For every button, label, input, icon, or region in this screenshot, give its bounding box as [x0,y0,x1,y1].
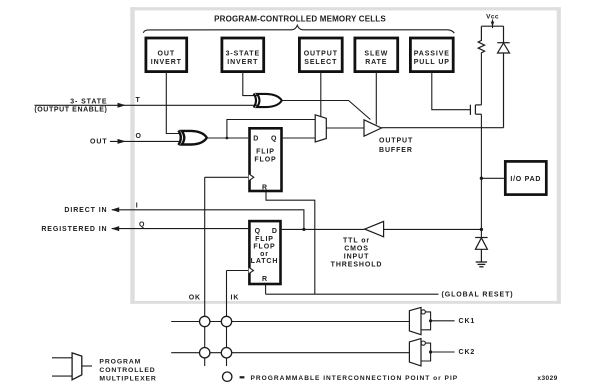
svg-text:BUFFER: BUFFER [379,147,413,154]
memory cell box 3-STATE INVERT [222,38,264,72]
I/O pad node vertical [480,128,482,238]
PIP IK/CK2 [221,348,231,358]
mux M1 (output select) [315,115,326,142]
wire U2 output to pad node [382,127,504,129]
svg-text:IK: IK [231,294,240,301]
svg-text:CONTROLLED: CONTROLLED [99,367,155,374]
svg-text:R: R [262,276,268,283]
junction D bypass [226,137,229,140]
svg-text:PASSIVE: PASSIVE [414,51,450,58]
svg-text:(OUTPUT ENABLE): (OUTPUT ENABLE) [34,107,107,114]
I/O PAD box [505,161,546,194]
svg-text:PROGRAM-CONTROLLED MEMORY CELL: PROGRAM-CONTROLLED MEMORY CELLS [214,14,386,23]
wire T (3-state input) [35,104,259,106]
wire I branch up [112,210,304,230]
svg-text:RATE: RATE [365,59,387,66]
svg-text:R: R [262,184,268,191]
wire G2 output to flip-flop D [207,137,249,139]
svg-text:CK1: CK1 [459,318,476,325]
svg-text:(GLOBAL RESET): (GLOBAL RESET) [442,292,514,299]
diode D2 (clamp to ground) [475,238,487,263]
U1 clock wedge [249,174,254,181]
svg-text:Q: Q [255,228,261,235]
svg-text:3-STATE: 3-STATE [226,51,260,58]
Vcc stub with arrow [492,20,494,29]
PIP IK/CK1 [221,316,231,326]
resistor R1 (pull-up) [478,26,484,54]
wire CK2 row [171,352,409,354]
svg-text:OK: OK [189,294,201,301]
svg-text:Vcc: Vcc [486,13,499,20]
svg-text:INVERT: INVERT [227,59,258,66]
svg-text:DIRECT IN: DIRECT IN [64,207,107,214]
brace over memory cell boxes [143,25,454,33]
svg-text:Q: Q [271,135,277,142]
wire Q1 source to pad node [480,114,482,128]
wire OK clock to U1 [205,176,248,178]
svg-text:MULTIPLEXER: MULTIPLEXER [99,375,156,382]
U4 clock wedge [249,267,254,273]
svg-text:CK2: CK2 [459,349,476,356]
svg-text:OUT: OUT [158,51,175,58]
diode D1 (clamp to Vcc) [497,26,509,128]
IOB boundary frame (gray) [130,7,561,304]
M2 input bracket [421,312,431,330]
input buffer U3 (TTL/CMOS threshold) [365,221,384,236]
wire OK vertical [204,177,206,366]
output buffer U2 [364,120,382,136]
svg-text:I: I [136,203,139,210]
arrowhead T [118,103,126,108]
junction CK2 [429,350,432,353]
wire IK clock to U4 [227,270,249,272]
svg-text:FLIP: FLIP [255,236,274,243]
arrowhead O [118,139,126,144]
mux M3 (CK2 select) [409,339,475,366]
wire pad node to U3 [384,228,482,230]
svg-text:OUTPUT: OUTPUT [379,137,413,144]
junction pad/branch [480,177,483,180]
wire CK1 row [171,321,409,323]
memory cell box SLEW RATE [355,38,398,72]
XOR gate G1 (3-state invert) [254,94,282,108]
svg-text:Q: Q [139,221,145,228]
svg-text:D: D [272,228,278,235]
svg-text:TTL or: TTL or [343,237,370,244]
wire CK2 [431,351,455,353]
M3 inverter bubble [421,341,425,345]
svg-text:FLOP: FLOP [253,244,275,251]
svg-text:INVERT: INVERT [151,59,182,66]
junction I branch [302,228,305,231]
svg-text:OUTPUT: OUTPUT [304,51,338,58]
svg-text:SELECT: SELECT [304,59,337,66]
legend PIP symbol [223,372,232,381]
pull-up transistor Q1 [470,105,481,115]
Vcc rail [481,25,503,27]
PIP OK/CK2 [200,348,210,358]
wire PASSIVE PULL UP to pull-up transistor gate [432,72,470,110]
flip-flop U4 box [249,221,281,284]
wire SLEW RATE to output buffer [375,72,377,125]
junction input branch [480,228,483,231]
wire M1 output to output buffer [326,127,364,129]
legend equals dash [240,376,245,378]
wire OUTPUT SELECT to mux M1 [320,72,322,117]
wire global reset [266,293,439,295]
M3 input bracket [421,343,431,361]
memory cell box OUTPUT SELECT [299,38,342,72]
legend mux symbol [52,353,92,380]
wire U4 R to global reset rail [265,285,267,295]
svg-text:FLIP: FLIP [256,149,275,156]
svg-text:PROGRAM: PROGRAM [99,359,141,366]
svg-text:LATCH: LATCH [251,258,279,265]
XOR gate G2 (out invert) [178,131,206,145]
svg-text:I/O PAD: I/O PAD [510,176,541,183]
wire OUT INVERT to XOR G2 top input [166,72,180,134]
arrowhead I [111,207,119,212]
ground [476,262,487,267]
junction CK1 [429,319,432,322]
wire O (out input) [110,140,181,142]
svg-text:REGISTERED IN: REGISTERED IN [41,226,107,233]
mux M2 (CK1 select) [409,307,475,334]
svg-text:D: D [253,135,259,142]
wire U3 output to flip-flop U4 D [282,228,365,230]
wire G1 output to output buffer enable [282,101,371,120]
wire U1 Q output to mux M1 input 2 [283,137,315,139]
svg-text:CMOS: CMOS [344,245,369,252]
svg-text:PULL UP: PULL UP [414,59,450,66]
wire Q1 drain to resistor [480,54,482,105]
svg-text:SLEW: SLEW [364,51,388,58]
M2 inverter bubble [421,310,425,314]
arrowhead Q [111,226,119,231]
wire CK1 [431,320,455,322]
svg-text:O: O [136,133,142,140]
svg-text:3- STATE: 3- STATE [70,98,107,105]
svg-text:FLOP: FLOP [254,157,276,164]
wire D bypass to mux M1 input 1 [227,120,315,139]
wire IK vertical [226,271,228,367]
svg-text:INPUT: INPUT [344,254,370,261]
wire 3-STATE INVERT to XOR G1 top input [243,72,259,96]
svg-text:PROGRAMMABLE INTERCONNECTION P: PROGRAMMABLE INTERCONNECTION POINT or PI… [251,375,459,382]
svg-text:OUT: OUT [90,139,107,146]
PIP OK/CK1 [200,316,210,326]
memory cell box PASSIVE PULL UP [410,38,453,72]
svg-text:or: or [260,251,269,258]
wire to I/O pad [481,177,504,179]
wire U1 R to global reset rail [266,192,315,294]
svg-text:THRESHOLD: THRESHOLD [331,262,383,269]
svg-text:T: T [136,97,141,104]
memory cell box OUT INVERT [146,38,187,72]
flip-flop U1 box [249,128,282,191]
wire Q registered in [112,228,248,230]
svg-text:x3029: x3029 [537,375,557,382]
